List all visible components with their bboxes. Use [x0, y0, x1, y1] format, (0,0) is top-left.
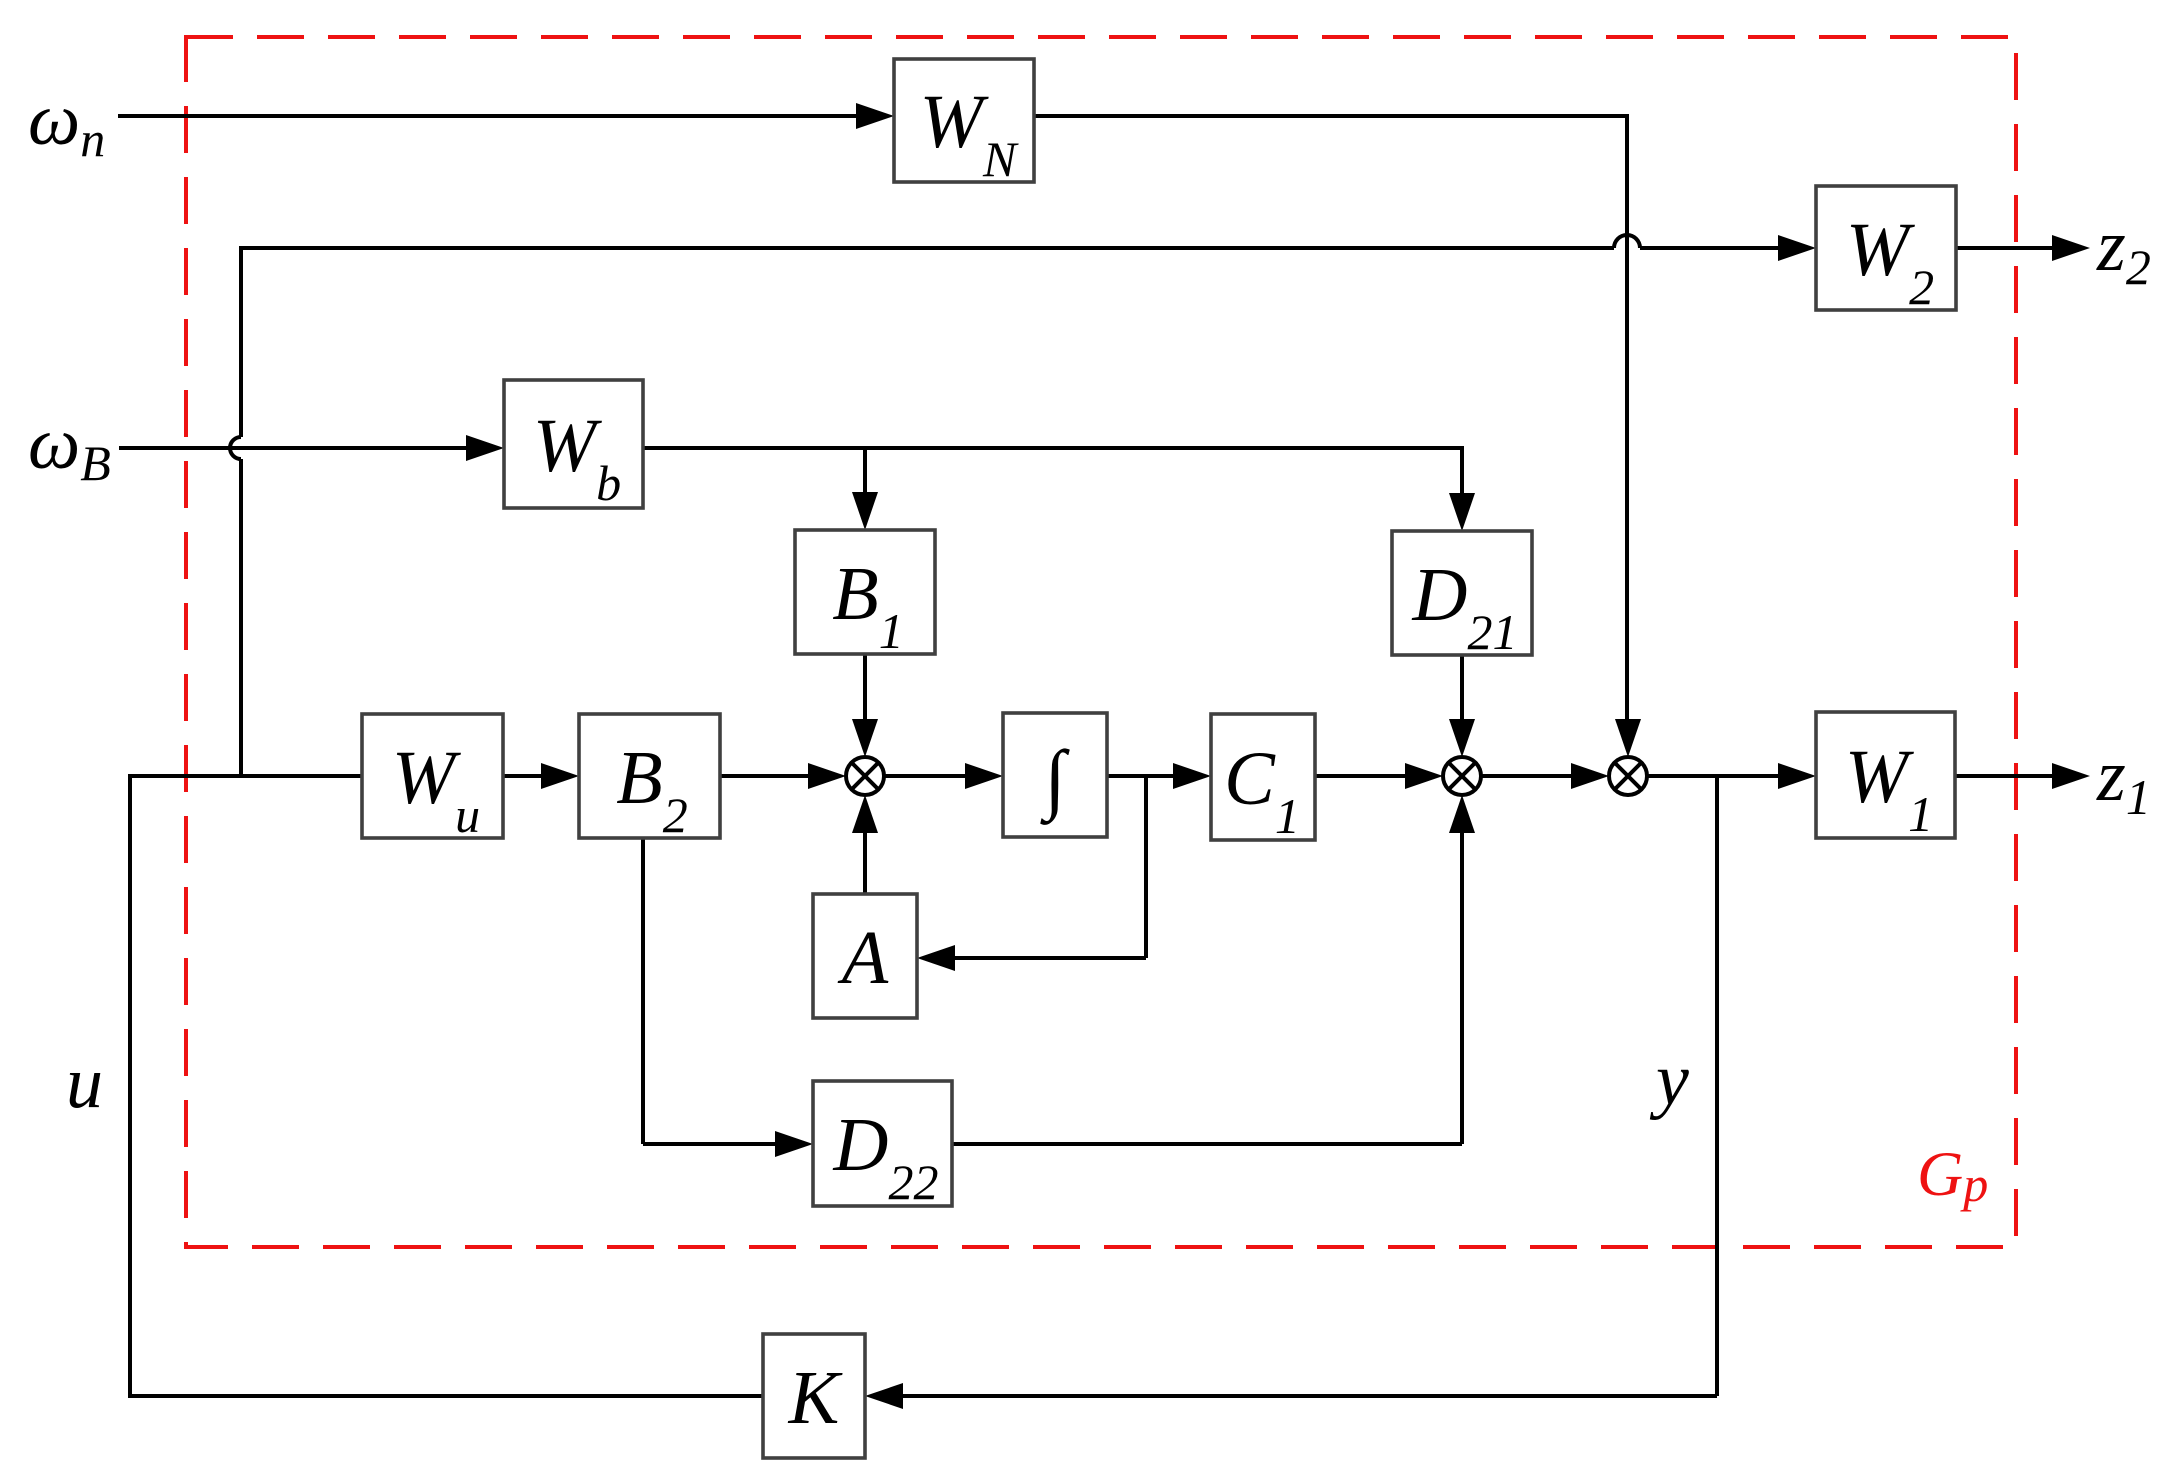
svg-text:K: K — [788, 1356, 843, 1440]
svg-text:A: A — [837, 916, 889, 1000]
svg-text:u: u — [66, 1042, 103, 1124]
svg-text:∫: ∫ — [1039, 734, 1070, 825]
